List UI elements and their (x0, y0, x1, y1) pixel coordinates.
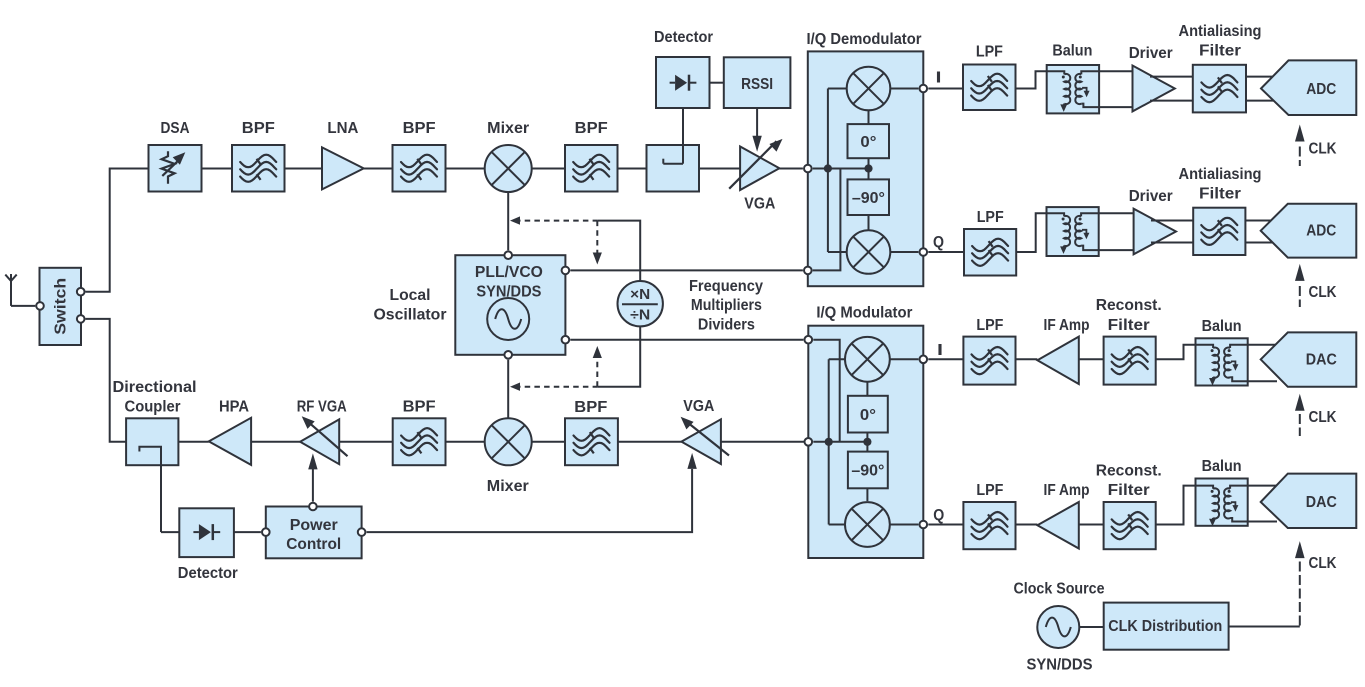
wire BPF to LNA (285, 168, 323, 170)
svg-text:Driver: Driver (1129, 188, 1173, 205)
wire PLL LO to I/Q modulator (570, 339, 803, 341)
wire switch TX input from directional coupler (86, 319, 127, 442)
wire demod phase chain (868, 110, 870, 124)
wire driver to AA filter row2 differential (1151, 220, 1193, 222)
svg-text:LNA: LNA (327, 120, 358, 137)
clock input ADC row1 (1295, 125, 1305, 142)
wire demod I to LPF (928, 88, 963, 90)
svg-text:Coupler: Coupler (125, 399, 181, 416)
port power control right (358, 528, 366, 536)
wire reconstruction filter to balun row3 (1156, 345, 1196, 360)
amplifier IF amp row3 (1037, 337, 1078, 384)
svg-text:IF Amp: IF Amp (1044, 482, 1090, 499)
switch antenna port (36, 302, 44, 310)
amplifier IF amp row4 (1037, 502, 1078, 549)
detector TX (179, 508, 234, 557)
switch (40, 268, 82, 345)
svg-text:Reconst.: Reconst. (1096, 463, 1162, 480)
port PLL bottom (504, 351, 512, 359)
driver amplifier row1 (1133, 66, 1175, 112)
mixer mod Q (845, 502, 890, 547)
svg-text:DAC: DAC (1306, 494, 1337, 511)
balun row4 (1196, 479, 1248, 526)
mixer mod I (845, 337, 890, 382)
svg-text:ADC: ADC (1306, 223, 1336, 240)
port mod I in (920, 356, 928, 364)
filter LPF row2 (964, 229, 1016, 276)
wire demod splitter vertical (827, 89, 829, 253)
wire TX coupler coupled port to detector (160, 465, 162, 532)
svg-text:CLK: CLK (1309, 284, 1337, 301)
phase shifter 0 deg mod (848, 396, 888, 433)
svg-text:Antialiasing: Antialiasing (1179, 23, 1262, 40)
mixer TX (485, 418, 532, 465)
svg-text:Multipliers: Multipliers (691, 297, 762, 314)
svg-text:VGA: VGA (683, 398, 714, 415)
wire LPF to balun row1 (1016, 71, 1047, 88)
svg-text:Directional: Directional (113, 379, 197, 396)
svg-text:Local: Local (390, 287, 431, 304)
svg-text:BPF: BPF (242, 120, 275, 137)
wire BPF to RF VGA (339, 441, 393, 443)
junction mod LO (863, 438, 871, 446)
svg-text:I: I (936, 70, 942, 87)
filter LPF row3 (963, 337, 1015, 385)
wire PLL bottom port to TX mixer (507, 360, 509, 419)
junction demod LO (864, 164, 872, 172)
amplifier RF VGA (300, 419, 339, 464)
wire multiplier dashed tap to demod LO line (596, 221, 598, 253)
wire LPF to balun row2 (1016, 213, 1046, 252)
svg-text:Mixer: Mixer (487, 120, 529, 137)
amplifier VGA RX (740, 147, 779, 191)
port demod LO in (804, 267, 812, 275)
clock input DAC row4 (1295, 541, 1305, 558)
svg-text:BPF: BPF (574, 399, 607, 416)
svg-text:DSA: DSA (161, 120, 190, 137)
detector RX (656, 57, 710, 108)
wire mod combiner vertical (828, 359, 830, 524)
port PLL right lower (562, 336, 570, 344)
wire mod Q from LPF (928, 524, 963, 526)
port demod Q out (920, 248, 928, 256)
svg-text:Switch: Switch (53, 278, 70, 335)
wire demod RF input rail (813, 168, 869, 170)
svg-text:Clock Source: Clock Source (1014, 581, 1105, 598)
filter reconstruction row3 (1104, 337, 1156, 385)
wire multiplier solid riser top (597, 221, 640, 282)
port PLL top (504, 251, 512, 259)
phase shifter -90 deg mod (848, 452, 888, 489)
wire TX mixer to BPF (446, 441, 486, 443)
filter BPF2 (393, 145, 446, 192)
mixer RX (485, 145, 532, 192)
balun row2 (1047, 207, 1099, 256)
mixer demod Q (847, 230, 891, 274)
wire power control to TX VGA with arrowhead (367, 469, 692, 532)
svg-text:DAC: DAC (1306, 352, 1337, 369)
svg-text:0°: 0° (860, 407, 876, 424)
svg-text:I/Q Demodulator: I/Q Demodulator (807, 31, 922, 48)
port mod LO in (805, 336, 813, 344)
wire RX coupler to VGA (699, 168, 740, 170)
oscillator PLL/VCO SYN/DDS (455, 255, 565, 355)
svg-text:HPA: HPA (219, 398, 249, 415)
svg-text:0°: 0° (860, 134, 876, 151)
port PLL right upper (562, 267, 570, 275)
svg-text:Q: Q (933, 507, 944, 524)
wire demod Q to LPF (928, 251, 964, 253)
svg-text:Filter: Filter (1108, 482, 1150, 499)
wire detector to RSSI (710, 82, 724, 84)
junction mod RF (825, 438, 833, 446)
phase shifter 0 deg demod (848, 124, 890, 158)
svg-text:PLL/VCO: PLL/VCO (475, 264, 543, 281)
wire DSA to BPF (202, 168, 233, 170)
svg-text:Filter: Filter (1199, 42, 1241, 59)
antenna (10, 281, 12, 306)
wire demod LO riser (813, 169, 841, 271)
svg-text:Antialiasing: Antialiasing (1179, 166, 1262, 183)
filter BPF TX left (393, 418, 446, 465)
wire driver to AA filter row1 differential (1150, 76, 1193, 78)
svg-text:÷N: ÷N (630, 307, 650, 324)
svg-text:SYN/DDS: SYN/DDS (1027, 657, 1093, 674)
svg-text:Q: Q (933, 234, 944, 251)
converter ADC row2 (1261, 204, 1357, 258)
wire mod I input (890, 358, 919, 360)
wire power control to RF VGA with arrowhead (312, 469, 314, 502)
attenuator DSA (149, 145, 202, 192)
svg-text:×N: ×N (630, 286, 650, 303)
junction demod RF (824, 164, 832, 172)
wire demod I output (890, 88, 918, 90)
svg-text:CLK Distribution: CLK Distribution (1108, 618, 1222, 635)
wire multiplier to RX LO dashed arrow (515, 220, 597, 222)
svg-text:RSSI: RSSI (741, 76, 773, 93)
svg-text:LPF: LPF (976, 44, 1003, 61)
filter antialiasing row2 (1193, 208, 1245, 255)
wire demod Q output (890, 251, 918, 253)
wire VGA to I/Q demodulator RF port (779, 168, 803, 170)
block RSSI (724, 57, 791, 108)
wire mod RF output rail (813, 441, 867, 443)
svg-text:Reconst.: Reconst. (1096, 297, 1162, 314)
converter DAC row4 (1261, 474, 1357, 528)
wire multiplier dashed tap to mod LO line (596, 356, 598, 387)
wire mod LO riser (813, 340, 839, 442)
svg-text:I: I (937, 342, 943, 359)
svg-text:Driver: Driver (1129, 45, 1173, 62)
wire multiplier to TX LO dashed arrow (515, 386, 597, 388)
wire clock source to CLK distribution (1079, 626, 1103, 628)
converter DAC row3 (1261, 332, 1357, 386)
filter LPF row4 (963, 502, 1015, 549)
converter ADC row1 (1261, 60, 1356, 115)
mixer demod I (847, 67, 891, 111)
svg-text:RF VGA: RF VGA (297, 398, 347, 415)
svg-text:I/Q Modulator: I/Q Modulator (816, 305, 912, 322)
wire mod Q input (890, 524, 919, 526)
wire RX mixer to BPF (531, 168, 565, 170)
svg-text:Dividers: Dividers (698, 317, 755, 334)
wire switch RX output to DSA (86, 169, 149, 292)
wire antenna to switch (11, 305, 35, 307)
svg-text:Filter: Filter (1199, 185, 1241, 202)
wire AA filter to ADC row2 differential (1245, 220, 1274, 222)
wire IF amp to reconstruction filter row3 (1079, 358, 1104, 360)
filter reconstruction row4 (1104, 502, 1156, 549)
amplifier VGA TX (681, 419, 721, 464)
clock input ADC row2 (1295, 264, 1305, 281)
phase shifter -90 deg demod (848, 179, 890, 215)
wire HPA to TX coupler (178, 441, 208, 443)
wire PLL LO to I/Q demodulator (570, 269, 803, 271)
filter LPF row1 (963, 65, 1016, 111)
svg-text:IF Amp: IF Amp (1044, 317, 1090, 334)
block I/Q modulator (808, 326, 923, 558)
svg-text:BPF: BPF (403, 398, 436, 415)
switch TX port (77, 315, 85, 323)
wire LNA to BPF (364, 168, 393, 170)
port mod RF out (805, 438, 813, 446)
filter BPF TX right (565, 418, 618, 465)
wire AA filter to ADC row1 differential (1246, 76, 1274, 78)
svg-text:VGA: VGA (744, 196, 775, 213)
svg-text:BPF: BPF (575, 120, 608, 137)
svg-text:BPF: BPF (403, 120, 436, 137)
wire I/Q modulator RF out to TX VGA (721, 441, 813, 443)
svg-text:–90°: –90° (852, 190, 885, 207)
wire TX VGA to BPF (618, 441, 682, 443)
svg-text:ADC: ADC (1306, 81, 1336, 98)
wire BPF to TX mixer (531, 441, 565, 443)
filter BPF3 (565, 145, 618, 192)
svg-text:LPF: LPF (976, 482, 1003, 499)
directional coupler TX (126, 418, 178, 465)
wire mod phase chain (866, 382, 868, 396)
svg-text:–90°: –90° (851, 463, 884, 480)
port demod RF in (804, 165, 812, 173)
multiplier xN/divN (618, 281, 663, 326)
svg-text:Mixer: Mixer (487, 478, 529, 495)
driver amplifier row2 (1134, 209, 1176, 255)
directional coupler RX (647, 145, 700, 192)
svg-text:Power: Power (290, 517, 338, 534)
switch RX port (77, 288, 85, 296)
svg-text:LPF: LPF (976, 317, 1003, 334)
port demod I out (920, 85, 928, 93)
balun row1 (1047, 65, 1099, 113)
svg-text:Balun: Balun (1202, 318, 1242, 335)
svg-text:Balun: Balun (1202, 458, 1242, 475)
block CLK distribution (1104, 603, 1229, 650)
wire RF VGA to HPA (251, 441, 300, 443)
wire mod I from LPF (928, 358, 963, 360)
block power control (266, 507, 362, 559)
svg-text:Detector: Detector (178, 565, 238, 582)
svg-text:CLK: CLK (1309, 409, 1337, 426)
clock input DAC row3 (1295, 394, 1305, 411)
port mod Q in (920, 521, 928, 529)
oscillator clock source SYN/DDS (1037, 606, 1079, 648)
wire LPF to IF amp row4 (1016, 524, 1038, 526)
wire detector to power control (234, 531, 261, 533)
svg-text:Frequency: Frequency (689, 278, 763, 295)
wire BPF to RX mixer (446, 168, 486, 170)
wire RSSI gain control to VGA with arrowhead (756, 108, 758, 136)
balun row3 (1196, 338, 1248, 385)
block I/Q demodulator (808, 51, 924, 286)
svg-text:Oscillator: Oscillator (374, 306, 447, 323)
svg-text:CLK: CLK (1309, 141, 1337, 158)
wire LPF to IF amp row3 (1016, 358, 1038, 360)
wire reconstruction filter to balun row4 (1156, 486, 1196, 525)
svg-text:CLK: CLK (1309, 555, 1337, 572)
wire CLK distribution to DAC clock (1229, 626, 1300, 628)
svg-text:Filter: Filter (1108, 317, 1150, 334)
amplifier LNA (322, 147, 364, 189)
wire detector to RX coupler (682, 108, 684, 145)
wire BPF to RX coupler (618, 168, 647, 170)
filter antialiasing row1 (1193, 65, 1246, 113)
amplifier HPA (209, 418, 251, 465)
port power control top (309, 503, 317, 511)
filter BPF1 (232, 145, 285, 192)
svg-text:Balun: Balun (1052, 43, 1092, 60)
port power control left (262, 528, 270, 536)
svg-text:LPF: LPF (977, 209, 1004, 226)
svg-text:Control: Control (286, 536, 341, 553)
svg-text:Detector: Detector (654, 29, 713, 46)
wire multiplier solid riser bottom (597, 326, 640, 387)
wire IF amp to reconstruction filter row4 (1079, 524, 1104, 526)
wire RX mixer LO to PLL top port (507, 192, 509, 250)
